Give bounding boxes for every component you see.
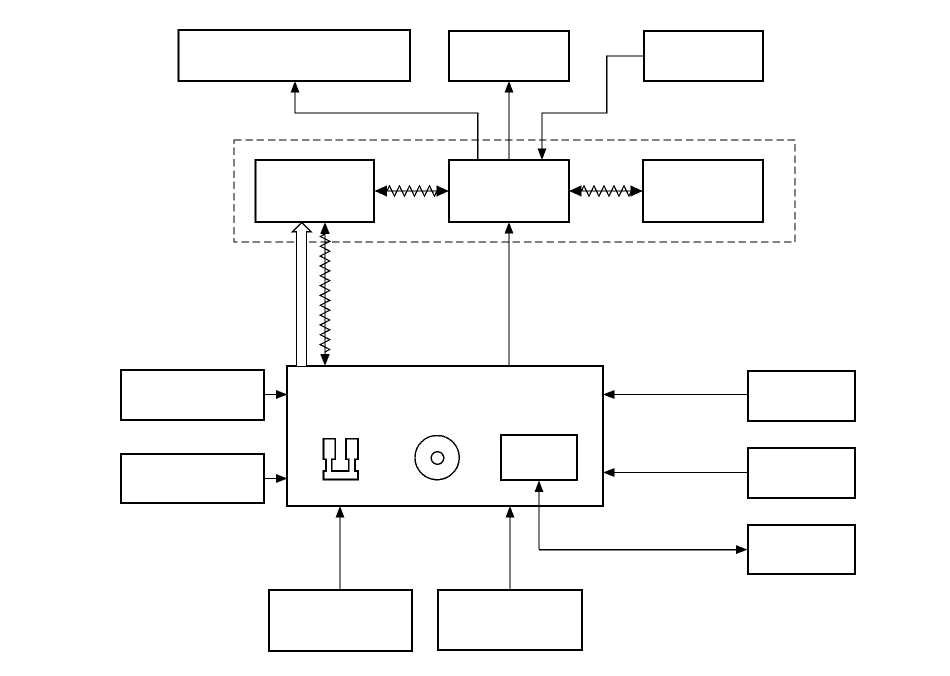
- block R (inner right): [643, 160, 763, 222]
- wire W10 (LB2 to CORE, arrow right): [264, 474, 288, 483]
- wire W9 (LB1 to CORE, arrow right): [264, 390, 288, 399]
- block SR (small rect inside CORE): [501, 435, 577, 480]
- icon wheel outer circle: [415, 436, 459, 480]
- block RB3 (right box 3): [748, 525, 855, 574]
- block LB2 (left box 2): [121, 454, 264, 503]
- wire W11 (RB1 to CORE, arrow left): [603, 390, 748, 399]
- wire W8 (CORE top to M bottom, arrow up): [505, 222, 514, 366]
- block RB2 (right box 2): [748, 448, 855, 498]
- wire W15b (corner to RB3, arrow right): [539, 545, 748, 554]
- block RB1 (right box 1): [748, 371, 855, 421]
- wire W3 (B3 to M top, arrow down): [538, 56, 645, 160]
- block BB2 (bottom box 2): [438, 590, 582, 650]
- wire W2 (M top to B2, arrow up): [505, 81, 514, 160]
- block LB1 (left box 1): [121, 370, 264, 420]
- wire W15a (corner to SR bottom, arrow up): [535, 481, 544, 550]
- block L (inner left): [256, 160, 375, 222]
- wire W14 (BB2 to CORE bottom, arrow up): [506, 506, 515, 590]
- block CORE (large central box): [287, 366, 603, 506]
- block M (inner middle): [449, 160, 569, 222]
- zigzag link Z1 (L to M, double arrow): [375, 185, 450, 196]
- dashed container (wireless group): [234, 140, 795, 242]
- icon wheel hub circle: [431, 452, 443, 464]
- wire W1 (M top to B1, arrow up): [291, 81, 478, 160]
- wire W12 (RB2 to CORE, arrow left): [603, 468, 748, 477]
- zigzag link Z3 (L bottom to CORE top, vertical double arrow): [320, 222, 330, 366]
- block B2 (top-middle): [449, 31, 569, 81]
- wire W13 (BB1 to CORE bottom, arrow up): [336, 506, 345, 590]
- block B1 (top-left): [179, 30, 411, 81]
- icon U (fork shape inside CORE): [324, 439, 358, 480]
- zigzag link Z2 (M to R, double arrow): [569, 185, 643, 196]
- block B3 (top-right): [644, 31, 763, 81]
- hollow arrow HA (CORE top to L bottom): [293, 223, 311, 367]
- block BB1 (bottom box 1): [269, 590, 412, 651]
